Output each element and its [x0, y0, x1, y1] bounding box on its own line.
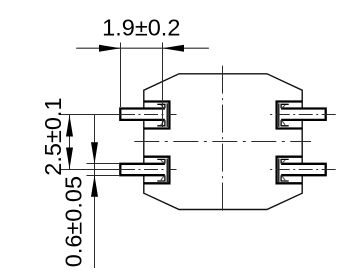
svg-text:0.6±0.05: 0.6±0.05	[61, 176, 87, 267]
dim 1.9 arrow left	[99, 45, 121, 52]
dim 2.5 arrow down	[66, 148, 73, 170]
lead bottom-right	[281, 164, 326, 175]
terminal pad bottom-right	[277, 157, 303, 184]
lead bend detail top-left	[157, 103, 167, 127]
component body outline (octagon)	[144, 74, 302, 210]
top row centerline left	[59, 114, 121, 116]
horizontal centerline	[134, 141, 311, 143]
dim 0.6 arrow up	[91, 175, 98, 197]
dim 0.6 extension lines	[87, 164, 121, 176]
svg-text:1.9±0.2: 1.9±0.2	[102, 15, 180, 41]
lead bend detail bottom-left	[157, 158, 167, 182]
top row centerline right	[270, 114, 336, 116]
lead top-right	[281, 109, 326, 120]
dim 1.9 dimension line	[76, 47, 209, 49]
vertical centerline	[222, 66, 224, 213]
dim 2.5 arrow up	[66, 115, 73, 137]
svg-text:2.5±0.1: 2.5±0.1	[40, 97, 66, 175]
terminal pad top-right	[277, 102, 303, 129]
dim 2.5 dimension line	[69, 115, 71, 170]
dim 1.9 extension line right	[162, 43, 164, 128]
lead bend detail bottom-right	[279, 158, 289, 182]
bottom row centerline left	[59, 169, 121, 171]
lead bottom-left	[120, 164, 165, 175]
lead bend detail top-right	[279, 103, 289, 127]
terminal pad top-left	[144, 102, 170, 129]
terminal pad bottom-left	[144, 157, 170, 184]
bottom row centerline right	[270, 169, 336, 171]
dim 1.9 arrow right	[163, 45, 185, 52]
lead top-left	[120, 109, 165, 120]
dim 0.6 arrow down	[91, 142, 98, 164]
dim 1.9 extension line left	[120, 43, 122, 108]
dim 0.6 dimension line upper	[94, 115, 96, 269]
